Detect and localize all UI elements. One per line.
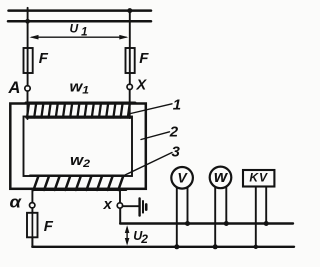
svg-text:A: A xyxy=(8,79,21,97)
voltage label U2 with double arrow xyxy=(125,225,148,246)
ground xyxy=(140,198,147,215)
wattmeter W xyxy=(210,167,232,189)
wire: terminal a to fuse F3 xyxy=(31,208,33,213)
callout 2 (leader to core) xyxy=(141,124,179,141)
wire: kilovoltmeter KV left lead to L4 xyxy=(255,187,257,247)
callout 1 (leader to winding w1) xyxy=(129,96,182,114)
wire: terminal x down, elbow to bus line L3 xyxy=(120,208,123,223)
winding w1 (primary coil) xyxy=(26,103,135,118)
junction dot V lead on L4 xyxy=(174,244,179,249)
wire: fuse F3 elbow to bus line L4 xyxy=(32,237,35,247)
junction dot on L1 (right tap) xyxy=(127,8,132,13)
callout 3 (leader to winding w2) xyxy=(125,143,181,175)
wire: left tap from bus to fuse F1 xyxy=(27,8,29,86)
kilovoltmeter KV xyxy=(243,170,274,187)
wire: kilovoltmeter KV right lead to L3 xyxy=(265,187,267,224)
bus line L3 (measuring circuit upper rail) xyxy=(120,222,293,224)
svg-text:2: 2 xyxy=(169,124,179,141)
wire: terminal X into winding w1 xyxy=(129,90,131,118)
bus line L2 (second supply line) xyxy=(8,20,151,23)
svg-text:3: 3 xyxy=(172,143,181,160)
svg-text:V: V xyxy=(177,170,188,186)
wire: right tap from bus to fuse F2 xyxy=(129,10,131,85)
wire: terminal x to ground xyxy=(123,205,139,207)
wire: voltmeter V left lead to L4 xyxy=(176,188,178,247)
svg-text:KV: KV xyxy=(249,171,268,185)
wire: winding w2 right end down to terminal x xyxy=(119,190,121,203)
junction dot V lead on L3 xyxy=(185,221,190,226)
wire: terminal A into winding w1 xyxy=(27,91,29,119)
wire: wattmeter W left lead to L4 xyxy=(214,187,216,247)
wire: wattmeter W right lead to L3 xyxy=(225,187,227,223)
wire: winding w2 left end down to terminal a xyxy=(31,190,33,203)
bus line L1 (top supply line) xyxy=(9,9,152,12)
bus line L4 (measuring circuit lower rail) xyxy=(32,246,294,248)
svg-text:F: F xyxy=(44,218,54,235)
terminal X xyxy=(127,84,132,89)
voltage label U1 with double arrow xyxy=(30,22,129,40)
svg-text:1: 1 xyxy=(173,96,181,113)
svg-text:α: α xyxy=(10,194,22,212)
terminal a xyxy=(30,203,35,208)
svg-text:w: w xyxy=(214,167,229,186)
transformer T core outer boundary xyxy=(10,104,146,189)
junction dot on L2 (left tap) xyxy=(25,19,30,24)
voltmeter V xyxy=(171,167,193,189)
svg-text:F: F xyxy=(139,50,149,67)
junction dot KV lead on L3 xyxy=(264,221,269,226)
svg-text:x: x xyxy=(103,196,113,213)
winding w2 (secondary coil) xyxy=(30,176,126,190)
fuse F1 (left, top) xyxy=(24,48,33,73)
transformer T core inner boundary xyxy=(24,117,133,177)
junction dot KV lead on L4 xyxy=(254,245,258,249)
wire: voltmeter V right lead to L3 xyxy=(187,188,189,224)
terminal A xyxy=(25,86,30,91)
svg-text:F: F xyxy=(39,50,49,67)
terminal x xyxy=(117,203,122,208)
fuse F3 (low-voltage side) xyxy=(27,213,38,238)
junction dot W lead on L3 xyxy=(224,221,229,226)
fuse F2 (right, top) xyxy=(126,48,135,73)
junction dot W lead on L4 xyxy=(213,244,218,249)
svg-text:X: X xyxy=(136,77,148,93)
